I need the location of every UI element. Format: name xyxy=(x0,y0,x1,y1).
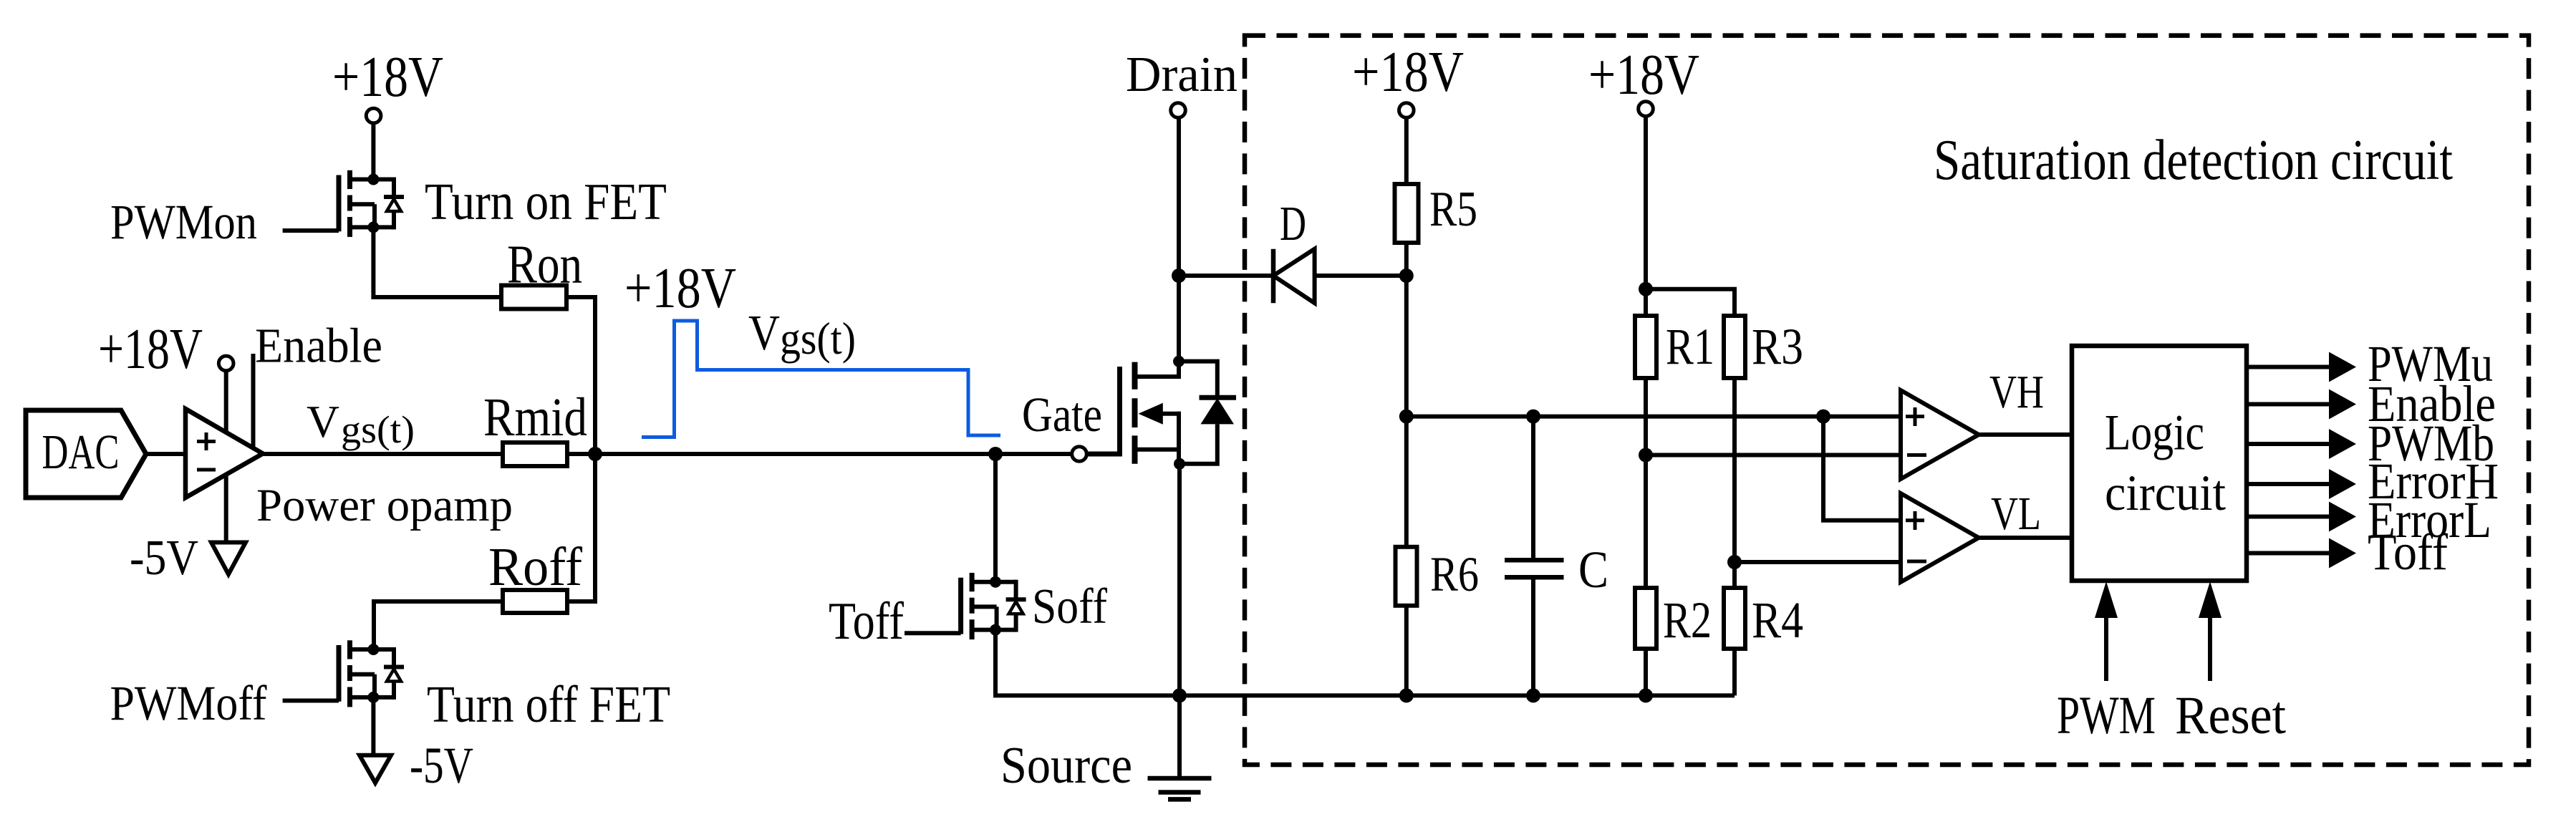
svg-text:circuit: circuit xyxy=(2105,465,2226,521)
svg-text:Ron: Ron xyxy=(507,235,582,295)
svg-text:+18V: +18V xyxy=(1352,39,1464,104)
svg-text:gs(t): gs(t) xyxy=(780,313,856,364)
svg-text:Toff: Toff xyxy=(2368,523,2448,581)
svg-text:Source: Source xyxy=(1000,736,1132,794)
svg-text:PWMon: PWMon xyxy=(110,195,257,249)
svg-text:+18V: +18V xyxy=(332,44,443,109)
svg-text:Gate: Gate xyxy=(1022,387,1102,442)
svg-text:+18V: +18V xyxy=(98,316,203,381)
svg-text:VH: VH xyxy=(1989,366,2044,418)
svg-text:R3: R3 xyxy=(1752,318,1803,375)
svg-text:PWM: PWM xyxy=(2057,686,2156,745)
svg-text:Roff: Roff xyxy=(488,537,583,597)
svg-text:Drain: Drain xyxy=(1126,47,1238,102)
svg-text:Logic: Logic xyxy=(2105,405,2204,461)
svg-text:C: C xyxy=(1578,541,1608,599)
svg-text:Turn on FET: Turn on FET xyxy=(425,173,667,231)
svg-text:R4: R4 xyxy=(1752,591,1803,649)
svg-text:Soff: Soff xyxy=(1032,579,1108,634)
svg-text:PWMoff: PWMoff xyxy=(110,676,267,730)
svg-text:V: V xyxy=(748,306,780,361)
svg-text:+18V: +18V xyxy=(624,256,736,320)
svg-text:-5V: -5V xyxy=(410,737,473,794)
svg-text:Reset: Reset xyxy=(2175,686,2286,745)
svg-text:Power opamp: Power opamp xyxy=(256,480,513,531)
svg-text:gs(t): gs(t) xyxy=(341,408,415,451)
svg-text:R1: R1 xyxy=(1666,318,1714,375)
svg-text:DAC: DAC xyxy=(42,425,120,479)
svg-text:Saturation detection circuit: Saturation detection circuit xyxy=(1934,129,2453,192)
svg-text:R6: R6 xyxy=(1430,547,1479,601)
svg-text:Rmid: Rmid xyxy=(483,387,587,448)
svg-text:R2: R2 xyxy=(1663,591,1712,649)
svg-text:D: D xyxy=(1280,196,1306,251)
svg-text:R5: R5 xyxy=(1429,182,1477,237)
svg-text:-5V: -5V xyxy=(130,531,198,586)
svg-text:Toff: Toff xyxy=(829,592,904,651)
svg-text:VL: VL xyxy=(1991,488,2041,540)
svg-text:Enable: Enable xyxy=(255,319,382,373)
svg-text:V: V xyxy=(307,396,339,447)
svg-text:+18V: +18V xyxy=(1588,42,1699,107)
svg-text:Turn off FET: Turn off FET xyxy=(427,675,670,733)
